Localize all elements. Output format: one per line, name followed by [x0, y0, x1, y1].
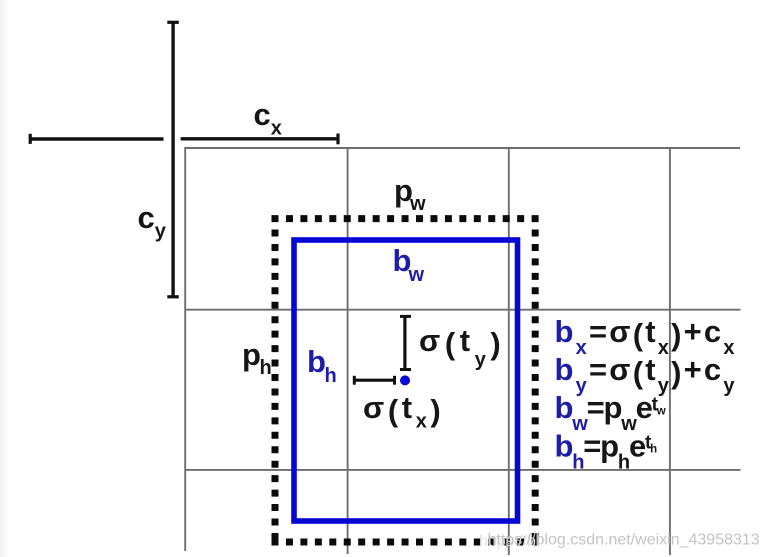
cy axis vertical line	[171, 22, 174, 298]
grid vertical line 3	[508, 147, 510, 555]
cy axis bottom cap	[167, 295, 179, 298]
prior box (dotted) bottom edge	[272, 539, 541, 546]
predicted box (blue)	[294, 240, 518, 521]
sigma(ty) marker bottom cap	[400, 368, 411, 371]
grid vertical line 4	[669, 147, 671, 555]
center point (blue dot)	[400, 375, 410, 385]
cx axis horizontal left line	[30, 137, 164, 140]
cy axis top cap	[167, 21, 179, 24]
cx axis left cap	[29, 134, 32, 144]
cx measure right cap	[336, 134, 339, 145]
sigma(tx) marker right cap	[393, 376, 396, 385]
grid vertical line 2	[347, 147, 349, 554]
svg-text:https://blog.csdn.net/weixin_4: https://blog.csdn.net/weixin_43958313	[488, 532, 760, 549]
sigma(tx) marker left cap	[353, 376, 356, 385]
prior box (dotted) left edge	[272, 230, 279, 539]
grid horizontal line 1	[185, 147, 741, 149]
prior box (dotted) top edge	[272, 215, 541, 222]
sigma(tx) marker line	[354, 379, 395, 382]
cx measure line	[181, 137, 339, 140]
prior box (dotted) right edge	[532, 230, 539, 539]
sigma(ty) marker top cap	[400, 315, 411, 318]
grid horizontal line 3	[186, 469, 741, 471]
grid horizontal line 2	[186, 309, 741, 311]
grid vertical line 1	[184, 147, 186, 551]
sigma(ty) marker line	[403, 316, 406, 370]
